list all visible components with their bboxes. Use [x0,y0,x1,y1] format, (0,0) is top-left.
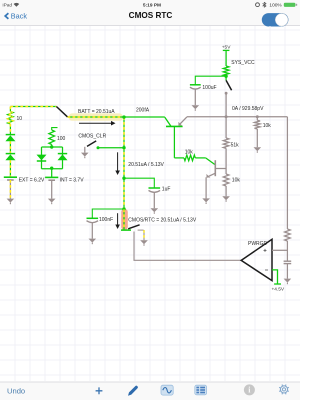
wire S4 to rail [225,93,227,117]
wire junction to PNP collector [124,116,165,118]
wire +5V to SYS_VCC resistor [225,50,227,66]
current arrow right [79,122,112,124]
transistor Q1 base bar [166,125,183,127]
resistor R5 10k [223,174,229,186]
rotation lock icon [256,3,260,7]
svg-text:INT = 3.7V: INT = 3.7V [60,178,85,184]
resistor R4 51k [223,138,229,148]
resistor SYS_VCC [223,66,229,76]
transistor Q2 base bar [214,160,216,176]
wire top-left corner to switch [10,106,56,108]
svg-text:100uF: 100uF [202,85,216,91]
ground C1 [151,208,159,212]
svg-text:+5V: +5V [222,45,231,51]
wire node to INT battery [51,169,53,178]
wire SYS_VCC node to switch S4 [225,76,227,80]
main vertical wire RTC net [123,117,125,209]
stub to ground right of S3 [143,230,145,240]
node top of diode pair [42,146,63,148]
settings gear [279,385,289,395]
junction 1uF branch [122,177,125,180]
svg-text:5:19 PM: 5:19 PM [143,3,161,9]
svg-text:100%: 100% [269,3,282,9]
table tool selected [195,385,207,395]
svg-text:BATT = 20.51uA: BATT = 20.51uA [78,109,115,115]
battery icon [284,3,296,7]
power +5V bar [223,49,230,51]
svg-text:51k: 51k [231,143,240,149]
pencil tool [128,386,138,396]
svg-text:10: 10 [17,116,23,122]
switch S3 left post bar [121,229,131,231]
ground stub CMOS_CLR [84,147,86,153]
ground R5 [222,196,230,200]
add button [96,387,103,394]
selected wire segment through glow [123,209,125,229]
switch S4 bottom post [225,92,228,95]
switch S3 blade open [128,225,139,229]
svg-text:iPad: iPad [3,3,13,9]
resistor R2 100 [49,130,55,145]
ground INT [48,199,56,203]
capacitor C1 1uF [149,187,161,189]
wire S2 to main vertical [98,147,124,149]
wire EXT battery to ground [9,180,11,199]
Q2 emitter lead with arrow [207,173,216,177]
node bottom of diode pair [42,168,63,170]
wire R4 to base node [225,148,227,174]
svg-text:1uF: 1uF [162,187,171,193]
switch S2 post [97,146,100,149]
main highlighted wire BATT net [68,116,125,118]
wire INT battery to ground [51,180,53,198]
toolbar background [0,382,300,400]
junction CMOS_CLR [122,146,125,149]
wire R2 to node [51,145,53,148]
wire D1 to D2 [9,141,11,153]
op-amp U1 PWRGD triangle [241,239,272,280]
op-amp minus marker [265,269,268,271]
wire stub above R2 [52,128,58,130]
power +4.5V bar [274,283,281,285]
svg-text:10k: 10k [232,178,241,184]
wire R5 to ground [225,186,227,196]
ground S3 [140,240,148,244]
battery EXT [4,176,17,178]
svg-text:0A / 929.58pV: 0A / 929.58pV [232,106,264,112]
ground C4 [284,279,292,283]
svg-text:10k: 10k [185,149,194,155]
switch S1 open blade [56,107,67,117]
resistor R3 10k [184,155,195,161]
ground C2 [89,239,97,243]
capacitor C2 100nF [87,217,99,219]
scope tool selected [161,385,173,395]
svg-text:100nF: 100nF [99,217,113,223]
wire RTC node to op-amp output [134,232,241,261]
ground R6 [254,147,262,151]
wire left column top [9,107,11,112]
wire C2 to ground [91,223,93,239]
svg-text:10k: 10k [263,123,272,129]
wire to 1uF cap [124,178,154,188]
wire R3 to Q2 collector [195,157,206,159]
switch S2 blade open [87,141,96,147]
wire 10k pullup top [256,117,258,121]
wire D2 to EXT battery [9,160,11,177]
current arrow down lower [117,213,119,225]
wire R6 to ground [256,129,258,147]
wire C1 to ground [153,193,155,209]
wire to 100nF cap [92,209,124,218]
svg-text:SYS_VCC: SYS_VCC [231,60,255,66]
Q1 base lead down [173,127,175,158]
diode D2 [6,153,15,155]
wire to 100uF cap [195,76,226,85]
ground EXT [7,199,15,203]
selection glow on main wire [69,113,124,120]
wire R1 to D1 [9,124,11,135]
selection glow on CMOS/RTC wire segment [121,209,128,230]
Q1 collector lead [165,117,171,126]
wire Q1 base to R3 [174,157,184,159]
resistor R7 [285,229,291,241]
junction rail at switch branch [225,115,228,118]
resistor R1 10 [8,112,14,125]
Q1 emitter lead with arrow [179,117,187,126]
svg-text:EXT = 6.2V: EXT = 6.2V [19,178,45,184]
wire C3 to ground [194,89,196,105]
wifi icon [14,3,20,7]
capacitor C3 100uF [190,84,201,86]
toggle switch [262,13,289,26]
svg-text:+4.5V: +4.5V [271,287,284,293]
back chevron [5,13,8,19]
capacitor C4 [284,260,292,262]
diode D3 down [37,155,47,161]
bluetooth icon [263,2,266,7]
info button [244,384,255,395]
svg-text:20.51uA / 5.13V: 20.51uA / 5.13V [128,162,164,168]
svg-text:100: 100 [57,136,66,142]
wire right branch [62,147,64,169]
junction rail at 10k pullup [256,115,259,118]
svg-text:PWRGD: PWRGD [248,241,268,247]
rail wire horizontal [187,116,287,118]
wire plus input to rail [272,249,287,251]
rail corner down right edge [286,117,288,229]
diode D1 [6,134,15,136]
op-amp plus marker [264,249,267,252]
ground Q2 emitter [202,198,210,202]
status and nav bar background [0,0,300,25]
svg-text:CMOS RTC: CMOS RTC [129,11,173,20]
ground C3 [192,105,200,109]
switch S4 blade open [226,80,232,90]
svg-text:CMOS_CLR: CMOS_CLR [78,134,106,140]
wire 51k top [225,117,227,138]
Q2 base lead [215,168,226,170]
junction SYS_VCC node [224,75,227,78]
Q2 collector lead [206,158,215,165]
svg-text:200fA: 200fA [136,108,150,114]
resistor R6 10k [255,120,261,129]
junction main wire top [122,115,125,118]
junction 100nF branch [122,207,125,210]
wire R7 to plus node [286,241,288,261]
wire left branch [41,147,43,169]
svg-text:Undo: Undo [7,386,25,395]
current arrow down mid [117,152,119,171]
wire Q2 emitter to ground [205,177,207,198]
diode D4 up [58,153,67,155]
switch S3 right post [138,229,144,231]
wire C4 to ground [286,264,288,279]
svg-text:CMOS/RTC = 20.51uA / 5.13V: CMOS/RTC = 20.51uA / 5.13V [128,217,197,223]
battery INT [45,176,58,178]
svg-text:Back: Back [11,12,28,21]
wire minus input to +4.5V [272,270,278,284]
